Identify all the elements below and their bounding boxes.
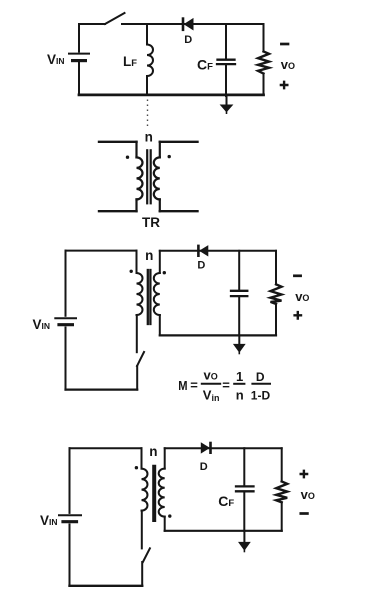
battery VIN short plate (73, 59, 86, 62)
minus sign circuit 1 (281, 43, 288, 46)
plus sign circuit 2 (295, 312, 301, 318)
wire bottom rail circuit 1 (79, 94, 264, 97)
ground G3 triangle (239, 542, 250, 550)
capacitor CF1 top lead (225, 24, 227, 59)
svg-text:M: M (178, 378, 187, 393)
resistor RL1 zigzag (258, 52, 269, 74)
wire top-left from battery to switch (79, 23, 105, 25)
T3 right phase dot (168, 514, 171, 517)
minus sign circuit 3 (301, 512, 308, 515)
TR bottom-right stub (160, 210, 198, 212)
switch S2 blade (137, 352, 144, 366)
resistor RL2 top lead (275, 251, 277, 285)
inductor LF top lead (146, 24, 148, 45)
svg-text:1-D: 1-D (251, 388, 271, 402)
wire battery V1 top lead (78, 24, 80, 52)
TR left phase dot (126, 156, 129, 159)
ground G2 tail (238, 352, 240, 354)
wire switch S2 to bottom rail (136, 366, 138, 390)
wire bottom rail primary 3 (70, 585, 143, 587)
T3 secondary winding (159, 469, 165, 517)
TR core line 1 (146, 150, 148, 203)
svg-text:=: = (190, 378, 198, 393)
TR core line 2 (150, 150, 152, 203)
wire battery bottom lead (78, 63, 80, 95)
resistor RL1 bottom lead (263, 74, 265, 95)
svg-text:D: D (256, 370, 265, 384)
svg-text:n: n (149, 444, 157, 459)
wire top rail primary 3 (70, 447, 142, 449)
diode D2 triangle (200, 246, 208, 256)
resistor RL3 top lead (281, 448, 283, 481)
svg-text:TR: TR (142, 215, 160, 230)
T3 primary lead top (141, 448, 143, 468)
T2 primary lead top (136, 251, 138, 273)
resistor RL2 bottom lead (275, 304, 277, 336)
ground G3 tail (243, 550, 245, 552)
T3 primary lead to switch (141, 511, 143, 549)
battery VIN2 short plate (59, 323, 72, 326)
dotted link line to transformer (147, 100, 149, 128)
wire top rail primary 2 (66, 250, 137, 252)
wire battery V3 bottom lead (69, 525, 71, 586)
T2 right phase dot (163, 271, 166, 274)
svg-text:n: n (145, 248, 153, 263)
capacitor C2 top lead (238, 251, 240, 289)
TR right lead top (159, 142, 161, 158)
T2 secondary lead bottom (159, 315, 161, 335)
T2 core line 2 (149, 270, 151, 324)
TR right phase dot (168, 155, 171, 158)
wire battery V2 bottom lead (65, 328, 67, 390)
resistor RL3 zigzag (276, 482, 287, 503)
wire switch S3 to bottom rail (141, 562, 143, 586)
svg-text:D: D (184, 34, 192, 46)
TR left lead bottom (135, 199, 137, 211)
ground G2 triangle (234, 344, 245, 352)
resistor RL3 bottom lead (281, 502, 283, 531)
capacitor C2 bottom lead (238, 298, 240, 336)
fraction bar D/(1-D) (252, 383, 270, 385)
inductor LF coil (147, 45, 153, 77)
plus sign circuit 3 (301, 471, 307, 477)
capacitor CF1 bottom lead (225, 66, 227, 96)
wire bottom rail secondary 2 (160, 334, 276, 336)
capacitor C3 bottom lead (243, 493, 245, 531)
svg-text:1: 1 (236, 369, 243, 384)
TR top-right stub (160, 141, 198, 143)
TR primary winding (137, 157, 143, 199)
wire battery V2 top lead (65, 251, 67, 316)
TR top-left stub (99, 141, 137, 143)
battery VIN3 short plate (63, 520, 77, 523)
ground G1 tail (226, 112, 228, 114)
battery VIN long plate (69, 53, 89, 55)
switch S3 blade (143, 548, 150, 562)
T2 core line 1 (147, 270, 149, 324)
wire top from switch to resistor corner (122, 23, 264, 25)
TR bottom-left stub (99, 210, 137, 212)
ground G1 triangle (221, 105, 233, 112)
ground G1 stem (226, 96, 228, 105)
svg-text:D: D (200, 461, 208, 473)
minus sign circuit 2 (294, 274, 300, 277)
diode D3 triangle (201, 443, 209, 453)
battery VIN2 long plate (55, 317, 76, 319)
resistor RL2 zigzag (271, 284, 282, 304)
T2 primary winding (137, 273, 143, 315)
T3 core bar (152, 467, 156, 520)
ground G3 stem (243, 532, 245, 543)
TR left lead down (135, 142, 137, 158)
T3 secondary lead top (164, 448, 166, 468)
wire battery V3 top lead (69, 448, 71, 513)
inductor LF bottom lead (146, 76, 148, 95)
diode D1 cathode bar (182, 19, 185, 30)
plus sign circuit 1 (281, 82, 287, 88)
svg-text:n: n (236, 387, 244, 402)
ground G2 stem (238, 336, 240, 344)
T2 secondary winding (154, 273, 160, 315)
battery VIN3 long plate (59, 514, 81, 516)
T2 left phase dot (130, 270, 133, 273)
TR right lead bottom (159, 199, 161, 211)
T3 secondary lead bottom (164, 517, 166, 531)
resistor RL1 top lead (263, 24, 265, 52)
wire bottom rail secondary 3 (165, 530, 282, 532)
diode D2 cathode bar (197, 246, 200, 256)
svg-text:=: = (222, 378, 230, 393)
fraction bar 1/n (234, 383, 244, 385)
T3 primary winding (142, 469, 148, 511)
diode D3 cathode bar (209, 443, 212, 453)
wire bottom rail primary 2 (66, 389, 138, 391)
svg-text:n: n (145, 129, 153, 144)
T2 secondary lead top (159, 251, 161, 273)
capacitor CF1 plates (218, 59, 235, 61)
svg-text:LF: LF (123, 54, 137, 69)
switch S1 blade (105, 13, 125, 24)
wire top rail secondary 2 (160, 250, 276, 252)
capacitor C3 plates (236, 485, 254, 487)
capacitor C3 top lead (243, 448, 245, 485)
diode D1 triangle (185, 19, 193, 30)
TR secondary winding (154, 157, 160, 199)
wire top rail secondary 3 (165, 447, 282, 449)
T3 left phase dot (135, 466, 138, 469)
capacitor C2 plates (231, 290, 247, 292)
svg-text:D: D (197, 260, 205, 272)
fraction bar vo/Vin (202, 383, 220, 385)
T2 primary lead to switch (136, 315, 138, 352)
